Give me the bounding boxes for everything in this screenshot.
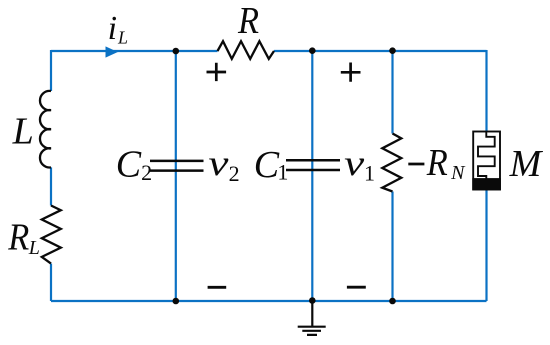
node dot bottom RN [389, 298, 396, 305]
capacitor C2 plates [150, 161, 204, 171]
node dot bottom C2 [173, 298, 180, 305]
plus sign v2 [207, 63, 227, 81]
ground [298, 300, 326, 335]
memristor bottom bar [472, 178, 501, 190]
wire -RN branch [391, 50, 393, 301]
svg-text:v: v [208, 143, 228, 183]
svg-text:R: R [237, 0, 259, 42]
svg-text:C: C [254, 144, 280, 186]
node dot top C2 [173, 48, 180, 55]
wire bottom horizontal [51, 300, 487, 302]
wire C1 branch [311, 50, 313, 301]
node dot top C1 [309, 47, 316, 54]
svg-text:R: R [7, 216, 29, 258]
wire left branch vertical [50, 50, 52, 301]
svg-text:C: C [116, 143, 142, 185]
resistor RL [42, 206, 61, 264]
svg-text:v: v [344, 143, 364, 183]
svg-text:1: 1 [364, 161, 375, 186]
svg-text:i: i [108, 10, 117, 47]
inductor L [40, 91, 51, 168]
svg-text:N: N [450, 162, 466, 184]
node dot top RN [389, 47, 396, 54]
svg-text:2: 2 [229, 161, 240, 186]
svg-text:L: L [28, 237, 40, 259]
svg-text:L: L [117, 28, 128, 48]
memristor meander [478, 132, 495, 179]
wire right branch vertical [485, 50, 487, 301]
node dot bottom ground [309, 297, 316, 304]
minus sign v2 [208, 286, 227, 289]
label -RN minus stroke [408, 163, 424, 166]
current arrow iL [106, 46, 118, 57]
wire C2 branch [175, 50, 177, 301]
svg-text:1: 1 [277, 160, 288, 185]
resistor R (top) [218, 41, 275, 59]
wire top horizontal right of R [274, 50, 487, 52]
memristor M body [473, 132, 500, 190]
svg-text:M: M [509, 143, 544, 185]
resistor -RN [382, 134, 401, 192]
minus sign v1 [347, 286, 366, 289]
svg-text:2: 2 [141, 160, 152, 185]
capacitor C1 plates [286, 160, 340, 170]
wire top horizontal left of R [51, 50, 218, 52]
svg-text:R: R [426, 142, 448, 184]
plus sign v1 [341, 63, 361, 82]
svg-text:L: L [12, 111, 34, 153]
